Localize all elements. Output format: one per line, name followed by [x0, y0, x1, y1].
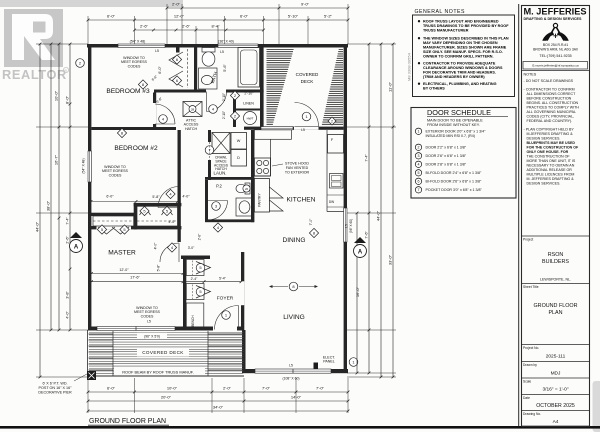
svg-text:7'-4": 7'-4": [365, 154, 369, 162]
bed2 closet bifold chevrons: [140, 207, 173, 215]
wall step foyer-living: [242, 330, 246, 373]
svg-text:FOR DECORATIVE TRIM AND HEADER: FOR DECORATIVE TRIM AND HEADERS.: [423, 71, 496, 75]
top dimension row 1: [167, 7, 348, 9]
svg-text:34'-0": 34'-0": [213, 405, 224, 410]
kitchen stove: [254, 158, 270, 176]
svg-text:SIZE ONLY. SEE MANUF. SPECS. F: SIZE ONLY. SEE MANUF. SPECS. FOR R.S.O.: [423, 50, 503, 54]
covered deck roof hatch right wedge: [322, 50, 343, 125]
P.2 toilet: [245, 183, 250, 194]
tag circle 4 bed3 door: [159, 115, 168, 124]
svg-text:9'-0": 9'-0": [301, 2, 310, 7]
svg-text:(108" X 60): (108" X 60): [282, 377, 299, 381]
wall P.2 west: [205, 180, 208, 222]
svg-text:4: 4: [418, 163, 420, 167]
title block drawing no: [522, 410, 590, 412]
svg-text:NECESSARY TO OBTAIN AN: NECESSARY TO OBTAIN AN: [527, 164, 575, 168]
svg-text:5: 5: [418, 171, 420, 175]
svg-text:- DO NOT SCALE DRAWINGS: - DO NOT SCALE DRAWINGS: [524, 79, 574, 83]
title block project no: [522, 344, 590, 346]
svg-text:38'-0": 38'-0": [46, 200, 51, 211]
svg-text:OWNER TO CONFIRM GRILL PATTERN: OWNER TO CONFIRM GRILL PATTERN.: [423, 55, 494, 59]
washer box: [231, 133, 247, 150]
tag circle 3 P.2 door: [212, 202, 221, 211]
svg-text:3/16" = 1'-0": 3/16" = 1'-0": [542, 387, 568, 393]
wall laundry west upper: [208, 130, 211, 142]
bed2 interior dim line: [91, 201, 178, 203]
wall bottom foyer: [205, 327, 244, 331]
svg-text:PLAN: PLAN: [548, 310, 562, 316]
svg-text:6'-0": 6'-0": [106, 195, 114, 199]
svg-text:A: A: [74, 245, 79, 251]
svg-text:BLUEPRINTS MAY BE USED: BLUEPRINTS MAY BE USED: [527, 141, 576, 145]
wall bed2 closet north: [134, 203, 182, 206]
title block sheet title divider: [522, 283, 590, 285]
kitchen counter west: [270, 139, 272, 176]
master interior dim line: [91, 273, 183, 275]
svg-text:ROOF BEAM BY ROOF TRUSS MANUF.: ROOF BEAM BY ROOF TRUSS MANUF.: [122, 370, 194, 375]
pantry closet: [254, 179, 269, 213]
svg-text:MAIN DOOR TO BE OPENABLE: MAIN DOOR TO BE OPENABLE: [427, 118, 483, 122]
svg-text:L5: L5: [155, 49, 159, 53]
svg-text:10'-0": 10'-0": [54, 90, 59, 101]
tag circle 1 elect: [349, 358, 358, 367]
right extension lines: [347, 43, 396, 45]
tag circle 2 top-left corner: [76, 59, 85, 68]
svg-text:Drawn by: Drawn by: [523, 363, 537, 367]
svg-text:4'-0": 4'-0": [154, 242, 158, 250]
svg-text:16'-7": 16'-7": [54, 154, 59, 165]
svg-text:ADDITIONAL RELEASE OR: ADDITIONAL RELEASE OR: [527, 168, 573, 172]
svg-text:5'-10": 5'-10": [288, 13, 299, 18]
svg-text:MULTIPLE LICENCES FROM: MULTIPLE LICENCES FROM: [527, 173, 575, 177]
window top bedroom3 54x48: [118, 44, 165, 48]
deck entry door arc: [295, 103, 319, 127]
gray bottom-right pill: [593, 381, 600, 432]
foyer closet bench: [186, 303, 204, 330]
laundry pocket door dash: [209, 142, 211, 160]
wall linen/hwt divider: [236, 109, 261, 111]
tag circle 26 P.2: [243, 185, 250, 192]
tag diamond 8 bed2 wall: [117, 128, 126, 137]
svg-text:7'-0": 7'-0": [262, 386, 271, 391]
bottom dimension row 1: [88, 391, 348, 393]
svg-text:PANEL: PANEL: [323, 360, 335, 364]
bath door arc: [207, 92, 227, 112]
svg-text:ALL DIMENSIONS CORRECT: ALL DIMENSIONS CORRECT: [527, 92, 577, 96]
svg-text:BEGINS. ALL CONSTRUCTION: BEGINS. ALL CONSTRUCTION: [527, 101, 579, 105]
svg-text:TEL:(709) 541-9235: TEL:(709) 541-9235: [539, 54, 571, 58]
wall kitchen west: [251, 130, 254, 222]
window left bedroom2 54x48: [88, 151, 91, 182]
sheet bottom border line: [0, 426, 600, 429]
wall bottom living: [244, 369, 348, 373]
svg-text:BI-FOLD DOOR 2'6" x 6'8" x 1 3: BI-FOLD DOOR 2'6" x 6'8" x 1 3/8": [426, 180, 482, 184]
svg-text:INSULATED MIN RSI 0.7, (R4): INSULATED MIN RSI 0.7, (R4): [426, 134, 475, 138]
bed2 door arc: [158, 187, 179, 208]
svg-text:THE CONSTRUCTION OF: THE CONSTRUCTION OF: [527, 155, 571, 159]
bottom extension lines: [87, 378, 89, 413]
bath toilet: [202, 48, 215, 53]
svg-text:2'-8": 2'-8": [198, 233, 202, 240]
svg-text:BY OTHERS: BY OTHERS: [423, 87, 445, 91]
svg-text:Project No.: Project No.: [523, 346, 539, 350]
foyer closet lower bifold: [186, 284, 204, 300]
svg-text:M.JEFFERIES DRAFTING &: M.JEFFERIES DRAFTING &: [527, 132, 574, 136]
title block outer border: [518, 4, 520, 426]
bed2 closet: [137, 206, 178, 226]
master door arc: [160, 243, 179, 262]
svg-text:5'-2": 5'-2": [324, 13, 333, 18]
tag diamond 6 bed3 closet upper: [172, 55, 181, 64]
wall laundry west lower: [208, 160, 211, 180]
P.2 sink: [236, 198, 254, 216]
svg-text:(54" X 48): (54" X 48): [82, 158, 86, 173]
svg-text:16'-0": 16'-0": [355, 286, 360, 297]
svg-text:ROOF TRUSS LAYOUT AND ENGINEER: ROOF TRUSS LAYOUT AND ENGINEERED: [423, 20, 499, 24]
svg-text:W: W: [237, 139, 241, 143]
wall foyer east: [241, 252, 244, 330]
wall linen/hwt west: [233, 93, 236, 128]
section marker A left: [70, 240, 83, 253]
svg-text:28: 28: [191, 107, 195, 111]
svg-text:MDJ: MDJ: [551, 371, 561, 377]
svg-text:2'-10": 2'-10": [222, 93, 226, 101]
dryer box: [231, 150, 247, 167]
svg-text:GENERAL NOTES: GENERAL NOTES: [415, 9, 465, 15]
svg-text:L5: L5: [147, 320, 151, 324]
window bottom living 108x60: [255, 369, 331, 373]
tag circle 1 deck door: [302, 112, 311, 121]
master closet bifold chevrons: [98, 227, 129, 234]
svg-text:GROUND FLOOR: GROUND FLOOR: [533, 303, 577, 309]
svg-text:DECK: DECK: [301, 79, 315, 84]
svg-text:7'-4": 7'-4": [66, 217, 70, 225]
svg-text:BEDROOM #2: BEDROOM #2: [114, 145, 158, 152]
title block scale: [522, 377, 590, 379]
wall bath east / deck west: [260, 44, 264, 127]
tag circle 1 entry door: [222, 311, 231, 320]
tag circle 7 laundry pocket door: [205, 146, 214, 155]
svg-text:17'-6": 17'-6": [130, 276, 140, 280]
svg-text:2'-0": 2'-0": [223, 386, 232, 391]
svg-text:M. JEFFERIES: M. JEFFERIES: [524, 7, 587, 17]
svg-text:HATCH: HATCH: [185, 127, 198, 131]
svg-text:TRUSS MANUFACTURER: TRUSS MANUFACTURER: [423, 29, 469, 33]
svg-text:NOTES: NOTES: [524, 73, 537, 77]
svg-text:E:morris.jefferies@nf.sympatic: E:morris.jefferies@nf.sympatico.ca: [532, 63, 579, 67]
svg-text:2'-10": 2'-10": [244, 92, 254, 96]
tag diamond 6 bed3 closet lower: [172, 76, 181, 85]
window bottom master egress: [97, 327, 175, 331]
svg-text:BOX 254 R.R.#1: BOX 254 R.R.#1: [543, 43, 568, 47]
svg-text:POST ON 16" X 16": POST ON 16" X 16": [39, 386, 73, 390]
svg-text:2025-111: 2025-111: [546, 354, 566, 360]
svg-text:POCKET DOOR 3'0" x 6'8" x 1 3/: POCKET DOOR 3'0" x 6'8" x 1 3/8": [426, 188, 483, 192]
section marker A right: [354, 245, 367, 258]
svg-text:ONLY ONE HOUSE. FOR: ONLY ONE HOUSE. FOR: [527, 150, 569, 154]
svg-text:DOOR 2'8" x 6'8" x 1 3/8": DOOR 2'8" x 6'8" x 1 3/8": [426, 163, 467, 167]
svg-text:CLEARANCE AROUND WINDOWS & DOO: CLEARANCE AROUND WINDOWS & DOORS: [423, 66, 503, 70]
svg-text:20'-0": 20'-0": [161, 395, 172, 400]
svg-text:MORE THAN ONE UNIT, IT IS: MORE THAN ONE UNIT, IT IS: [527, 159, 576, 163]
svg-text:LINEN: LINEN: [243, 102, 254, 106]
title block notes divider: [522, 69, 590, 71]
bed3 door arc: [155, 104, 175, 124]
svg-text:2'-4": 2'-4": [191, 277, 199, 281]
bottom dimension row 2: [88, 400, 348, 402]
svg-text:6'-0": 6'-0": [107, 13, 116, 18]
svg-text:6: 6: [418, 180, 420, 184]
crawl space hatch box: [212, 133, 230, 154]
svg-text:DOOR 2'6" x 6'8" x 1 3/8": DOOR 2'6" x 6'8" x 1 3/8": [426, 154, 467, 158]
svg-text:BEFORE CONSTRUCTION: BEFORE CONSTRUCTION: [527, 97, 572, 101]
tag diamond 5 master closet L: [97, 225, 106, 234]
P.2 door arc: [211, 201, 227, 220]
svg-text:STOVE HOOD: STOVE HOOD: [285, 162, 309, 166]
svg-text:DRAFTING & DESIGN SERVICES: DRAFTING & DESIGN SERVICES: [524, 17, 583, 21]
wall bed3 east (hall): [153, 93, 156, 128]
svg-text:FAN VENTED: FAN VENTED: [286, 166, 309, 170]
tag diamond 5 master closet R: [120, 225, 129, 234]
svg-text:CODES (CITY, PROVINCIAL,: CODES (CITY, PROVINCIAL,: [527, 115, 574, 119]
left dimension col 3: [58, 44, 60, 330]
svg-text:LIVING: LIVING: [283, 314, 305, 321]
svg-text:Scale: Scale: [523, 380, 531, 384]
wall closet connector: [134, 203, 137, 230]
svg-text:2'-10": 2'-10": [222, 111, 226, 119]
svg-text:ALL GOVERNING MUNICIPAL: ALL GOVERNING MUNICIPAL: [527, 110, 577, 114]
svg-text:2'-6": 2'-6": [140, 24, 149, 29]
svg-text:FOYER: FOYER: [217, 296, 234, 302]
kitchen sink double: [330, 174, 344, 189]
svg-text:Drawing No.: Drawing No.: [523, 412, 541, 416]
svg-text:BUILDERS: BUILDERS: [542, 259, 569, 265]
svg-text:(96" X 60): (96" X 60): [349, 219, 353, 233]
svg-text:DINING: DINING: [282, 237, 305, 244]
svg-text:- PLAN COPYRIGHT HELD BY: - PLAN COPYRIGHT HELD BY: [524, 128, 575, 132]
bed3 closet bifold doors: [169, 52, 183, 87]
kitchen corner counter top: [254, 130, 291, 140]
svg-text:44'-0": 44'-0": [35, 221, 40, 232]
svg-text:12'-0": 12'-0": [119, 268, 129, 272]
svg-text:L5: L5: [345, 224, 349, 228]
svg-text:GROUND FLOOR PLAN: GROUND FLOOR PLAN: [89, 416, 166, 425]
svg-text:EXTERIOR DOOR 3'0" x 6'8" x 1: EXTERIOR DOOR 3'0" x 6'8" x 1 3/4": [426, 130, 487, 134]
svg-text:5'-8": 5'-8": [157, 264, 161, 272]
svg-text:2: 2: [331, 119, 333, 123]
svg-text:M. JEFFERIES DRAFTING &: M. JEFFERIES DRAFTING &: [527, 177, 575, 181]
svg-text:4'-0": 4'-0": [66, 311, 70, 319]
svg-text:FROM INSIDE WITHOUT KEY.: FROM INSIDE WITHOUT KEY.: [427, 123, 480, 127]
svg-text:BENCH: BENCH: [191, 315, 195, 327]
svg-text:ELECTRICAL, PLUMBING, AND HEAT: ELECTRICAL, PLUMBING, AND HEATING: [423, 82, 497, 86]
svg-text:8'-0": 8'-0": [65, 95, 70, 104]
tag diamond 8 dining: [309, 228, 318, 237]
wall hall/foyer jog: [181, 256, 210, 260]
svg-text:MASTER: MASTER: [108, 250, 136, 257]
svg-text:- CONTRACTOR TO CONFIRM: - CONTRACTOR TO CONFIRM: [524, 88, 575, 92]
svg-text:33'-0": 33'-0": [388, 254, 393, 265]
tag diamond 2 hwt: [230, 111, 239, 120]
svg-text:7: 7: [418, 188, 420, 192]
svg-text:P.2: P.2: [216, 184, 222, 189]
svg-text:R: R: [65, 68, 68, 73]
svg-text:2'-6": 2'-6": [182, 24, 191, 29]
gray top bar: [0, 0, 183, 7]
svg-text:7'-0": 7'-0": [316, 386, 325, 391]
bed3 closet east wall: [194, 48, 197, 90]
tag diamond 2 kitchen wall: [328, 117, 336, 125]
svg-text:26: 26: [245, 187, 249, 191]
svg-text:RSON: RSON: [548, 252, 564, 258]
wall bottom master: [88, 327, 215, 331]
note roof beam: [114, 368, 205, 376]
svg-text:TO EXTERIOR: TO EXTERIOR: [285, 170, 310, 174]
covered deck bottom outline: [87, 330, 89, 376]
svg-text:Project: Project: [523, 238, 533, 242]
svg-text:4'-0": 4'-0": [182, 195, 190, 199]
window top bath 36x40: [218, 44, 258, 48]
svg-text:(TRIM AND HEADERS BY OWNER): (TRIM AND HEADERS BY OWNER): [423, 75, 485, 79]
tag diamond 2 linen: [230, 91, 239, 100]
svg-text:M8 3308 09554: M8 3308 09554: [407, 52, 412, 81]
master closet: [93, 216, 134, 226]
svg-text:5'-6": 5'-6": [223, 64, 227, 72]
wall laundry / P.2 divider: [205, 177, 254, 180]
left dimension col 1 44ft: [39, 44, 41, 377]
svg-text:(54" X 48): (54" X 48): [130, 40, 146, 44]
title block email box: [523, 62, 588, 70]
svg-text:A: A: [358, 250, 363, 256]
svg-text:DW: DW: [329, 200, 334, 204]
svg-text:LEWISPORTE, NL.: LEWISPORTE, NL.: [540, 278, 571, 282]
svg-text:DESIGN SERVICES.: DESIGN SERVICES.: [527, 137, 561, 141]
svg-text:CODES: CODES: [128, 64, 141, 68]
svg-text:6'-0": 6'-0": [158, 66, 162, 74]
svg-text:(96" X 5'0): (96" X 5'0): [144, 335, 160, 339]
hwt tank: [244, 112, 257, 125]
foyer entry door arc: [215, 306, 239, 330]
window right dining L5: [344, 208, 347, 242]
watermark REALTOR logo block: [4, 9, 63, 67]
wall bath south: [154, 90, 206, 93]
top dimension row 2: [88, 19, 348, 21]
svg-text:3'-8": 3'-8": [66, 291, 70, 299]
wall bedroom3/bedroom2 divider: [91, 127, 176, 130]
svg-text:L5: L5: [289, 364, 293, 368]
svg-text:DESIGN SERVICES.: DESIGN SERVICES.: [527, 182, 561, 186]
wall top exterior: [87, 44, 348, 48]
svg-text:10'-0": 10'-0": [167, 386, 178, 391]
svg-text:6'-0": 6'-0": [107, 386, 116, 391]
tag diamond 4 bed2 upper: [166, 189, 175, 198]
tag circle 4 bath door: [209, 105, 218, 114]
ceiling fan symbol circle 8: [289, 282, 298, 291]
svg-text:CODES: CODES: [141, 314, 154, 318]
left extension lines: [36, 43, 88, 45]
wall master north (closet bottom): [90, 226, 181, 229]
svg-text:CONTRACTOR TO PROVIDE ADEQUATE: CONTRACTOR TO PROVIDE ADEQUATE: [423, 62, 496, 66]
top extension lines: [87, 16, 89, 44]
bottom dimension row 3: [88, 410, 348, 412]
svg-text:COVERED DECK: COVERED DECK: [142, 350, 184, 355]
door schedule rows: [415, 128, 421, 134]
deck post with pier: [87, 371, 96, 380]
title block date: [522, 394, 590, 396]
svg-text:LAUN.: LAUN.: [214, 171, 227, 176]
svg-text:FOR THE CONSTRUCTION OF: FOR THE CONSTRUCTION OF: [527, 146, 580, 150]
room label COVERED DECK bottom: [137, 348, 189, 357]
svg-text:5'-8": 5'-8": [152, 195, 160, 199]
wall north kitchen (deck south): [244, 127, 344, 130]
top dimension row 3: [135, 29, 264, 31]
svg-text:COVERED: COVERED: [296, 72, 319, 77]
svg-text:THE WINDOW SIZES DESCRIBED IN: THE WINDOW SIZES DESCRIBED IN THIS PLAN: [423, 37, 509, 41]
tag diamond 8 bed3: [138, 80, 147, 89]
svg-text:L5: L5: [220, 50, 224, 54]
wall bedroom2 east (hall): [178, 130, 181, 242]
svg-text:6' X 6' P.T. WD.: 6' X 6' P.T. WD.: [42, 382, 67, 386]
svg-text:8'-4": 8'-4": [212, 24, 221, 29]
pantry bifold doors: [269, 187, 283, 211]
svg-text:6'-0": 6'-0": [240, 13, 249, 18]
wall right exterior: [344, 44, 347, 373]
svg-text:Date: Date: [523, 396, 530, 400]
left dimension col 2 38ft: [50, 44, 52, 330]
covered deck roof hatch left wedge: [267, 50, 294, 125]
general notes box: [413, 15, 515, 97]
svg-text:BI-FOLD DOOR 2'4" x 6'8" x 1 3: BI-FOLD DOOR 2'4" x 6'8" x 1 3/8": [426, 171, 482, 175]
left dimension col 4: [69, 44, 71, 330]
tag diamond 4 hall: [213, 223, 222, 232]
bed3 closet rod dashed: [187, 49, 189, 88]
svg-text:3: 3: [418, 154, 420, 158]
general notes bullets: [418, 20, 420, 22]
svg-text:11'-0": 11'-0": [388, 81, 393, 91]
right dimension col 3: [380, 44, 382, 377]
svg-text:PRACTICES TO COMPLY WITH: PRACTICES TO COMPLY WITH: [527, 106, 580, 110]
bath vanity: [199, 68, 218, 89]
svg-text:1: 1: [418, 130, 420, 134]
svg-text:3'-0": 3'-0": [188, 246, 195, 250]
svg-text:HWT: HWT: [247, 117, 254, 121]
wall master closet north: [90, 213, 137, 216]
svg-text:OCTOBER 2025: OCTOBER 2025: [536, 403, 575, 409]
tag diamond 5 bed2 closet R: [162, 206, 171, 215]
title block compass logo: [543, 23, 569, 40]
svg-text:BROWN'S ARM, NL A0G 3A0: BROWN'S ARM, NL A0G 3A0: [533, 48, 578, 52]
svg-text:TRUSS DRAWINGS TO BE PROVIDED: TRUSS DRAWINGS TO BE PROVIDED BY ROOF: [423, 24, 509, 28]
label master window size: [137, 333, 167, 339]
kitchen east counter: [326, 130, 328, 212]
bath tub: [238, 48, 260, 88]
svg-text:2: 2: [418, 146, 420, 150]
foyer closet upper bifold: [186, 260, 204, 276]
title block project divider: [522, 235, 590, 237]
window north kitchen: [261, 127, 293, 130]
svg-text:4'-0": 4'-0": [168, 220, 176, 224]
svg-text:PANTRY: PANTRY: [258, 193, 262, 207]
svg-text:MANUFACTURER. SIZES SHOWN ARE: MANUFACTURER. SIZES SHOWN ARE FRAME: [423, 46, 507, 50]
svg-text:2'-6": 2'-6": [66, 236, 70, 244]
right dimension col inner: [356, 213, 358, 373]
svg-text:14'-0": 14'-0": [291, 395, 302, 400]
tag diamond 4 master door: [167, 243, 176, 252]
title block drawn by: [522, 361, 590, 363]
svg-text:KITCHEN: KITCHEN: [287, 197, 316, 204]
svg-text:Sheet Title: Sheet Title: [523, 285, 539, 289]
svg-text:(36" X 40): (36" X 40): [218, 40, 234, 44]
